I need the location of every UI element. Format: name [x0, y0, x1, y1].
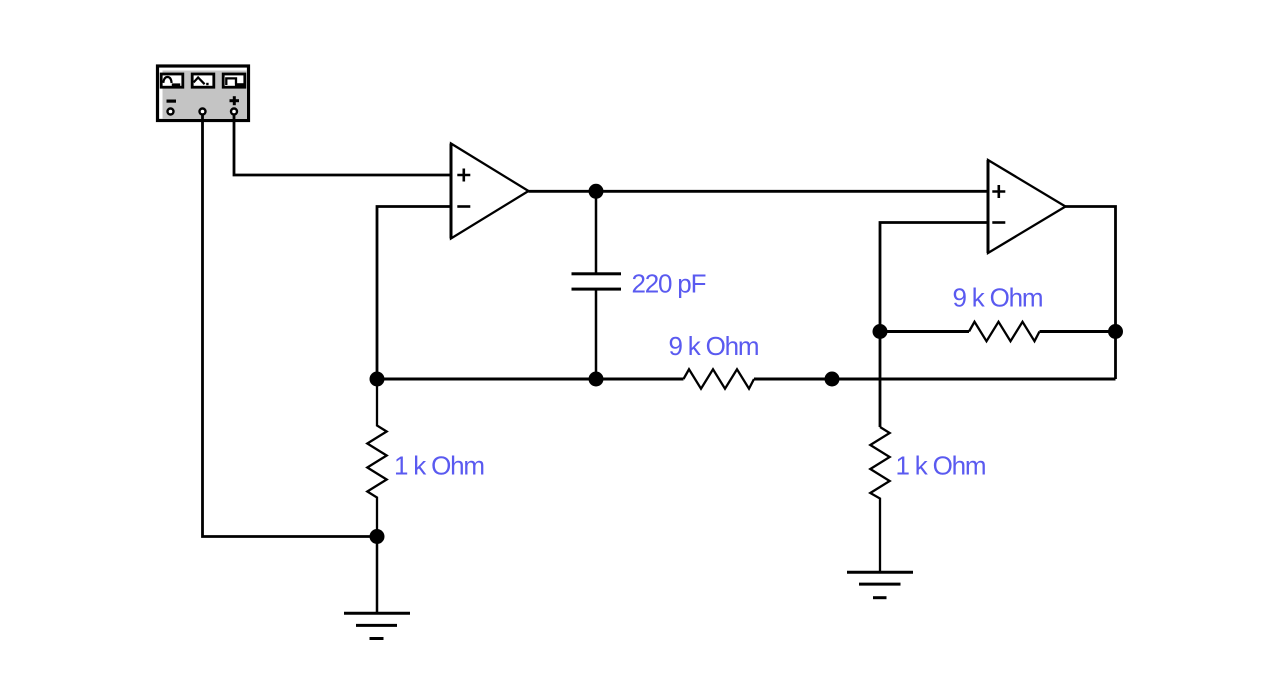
node: capacitor bottom junction — [589, 372, 604, 387]
resistor R3 1k (vertical, stage 2) — [870, 427, 889, 572]
wire: feedback rail left segment — [377, 378, 684, 381]
wire: common terminal down to node at left 1k resistor bottom — [203, 115, 378, 536]
XFG1 sine button — [161, 74, 183, 87]
wire: node to resistor R4 9k left — [880, 330, 969, 333]
wire: R2 right to node and to U2 output rail — [754, 378, 1116, 381]
resistor R1 1k (vertical, stage 1) — [367, 379, 386, 537]
node: U1 output junction — [589, 184, 604, 199]
wire: U1 output to op-amp U2 + input — [529, 190, 989, 193]
wire: R4 right to output node — [1040, 330, 1116, 333]
XFG1 square button — [223, 74, 245, 87]
svg-text:220 pF: 220 pF — [632, 269, 706, 299]
op-amp U2 — [988, 160, 1066, 253]
node: R1 bottom junction — [370, 529, 385, 544]
XFG1 minus terminal — [168, 109, 174, 115]
U2 plus input marker — [992, 185, 1005, 198]
capacitor C1 — [572, 272, 622, 290]
node: mid rail junction — [825, 372, 840, 387]
U1 plus input marker — [457, 169, 470, 182]
wire: U2 output around to feedback rail — [1066, 207, 1116, 380]
ground GND2 — [847, 572, 913, 598]
node: R4 right / U2 output junction — [1108, 324, 1123, 339]
wire: output node down to capacitor C1 top — [595, 191, 598, 274]
ground GND1 — [344, 613, 410, 638]
U1 minus input marker — [457, 205, 470, 208]
node: left feedback junction — [370, 372, 385, 387]
node: R4 left junction — [873, 324, 888, 339]
svg-text:1 k Ohm: 1 k Ohm — [394, 450, 484, 480]
svg-text:9 k Ohm: 9 k Ohm — [953, 283, 1043, 313]
wire: U1 minus input to left vertical — [377, 207, 451, 380]
resistor R4 9k (horizontal, feedback stage 2) — [969, 322, 1040, 341]
function generator XFG1 body — [158, 66, 249, 121]
svg-text:9 k Ohm: 9 k Ohm — [669, 331, 759, 361]
XFG1 plus terminal — [231, 109, 237, 115]
U2 minus input marker — [992, 221, 1005, 224]
XFG1 common terminal — [200, 109, 206, 115]
XFG1 minus polarity label — [167, 100, 177, 103]
wire: capacitor C1 bottom down to feedback rail — [595, 289, 598, 379]
wire: plus terminal down and right to op-amp U1 + input — [234, 115, 451, 175]
XFG1 triangle button — [192, 74, 214, 87]
wire: R1 bottom node down to ground — [376, 537, 379, 614]
svg-text:1 k Ohm: 1 k Ohm — [896, 450, 986, 480]
op-amp U1 — [451, 144, 529, 239]
wire: U2 minus input left and down through feedback node to R3 — [880, 223, 988, 428]
resistor R2 9k (horizontal, stage 1) — [684, 369, 755, 388]
XFG1 plus polarity label — [230, 96, 240, 105]
